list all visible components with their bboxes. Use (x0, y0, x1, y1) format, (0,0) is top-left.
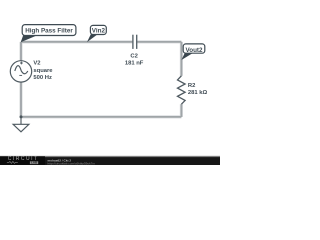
svg-text:Vout2: Vout2 (185, 47, 203, 54)
svg-text:Vin2: Vin2 (92, 28, 106, 35)
svg-text:500 Hz: 500 Hz (33, 75, 52, 81)
svg-text:181 nF: 181 nF (125, 61, 144, 67)
svg-text:C2: C2 (130, 54, 138, 60)
svg-text:ht​tp://circuitlab.com/c6kblp5: ht​tp://circuitlab.com/c6kblp59uk7m (48, 161, 96, 165)
svg-text:square: square (33, 68, 53, 74)
svg-text:LAB: LAB (31, 161, 37, 165)
svg-text:High Pass Filter: High Pass Filter (25, 27, 73, 34)
svg-text:V2: V2 (33, 61, 41, 67)
svg-text:R2: R2 (188, 83, 196, 89)
svg-text:281 kΩ: 281 kΩ (188, 90, 208, 96)
